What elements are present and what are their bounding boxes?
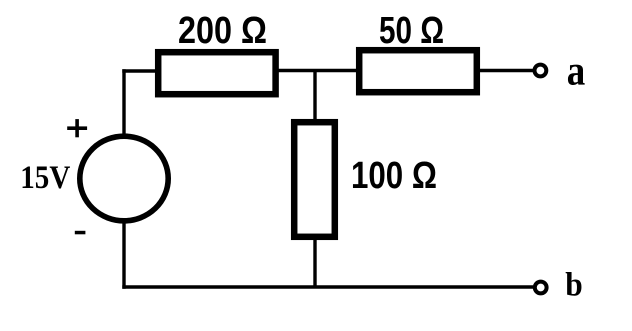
label V1 plus sign — [67, 126, 87, 130]
svg-text:50 Ω: 50 Ω — [379, 10, 444, 52]
wire: top-left horizontal to 200 ohm resistor — [122, 69, 156, 72]
terminal a circle — [535, 65, 547, 77]
voltage source V1 — [80, 136, 168, 221]
resistor R1 200 ohm — [158, 52, 275, 94]
wire: 100 ohm down to bottom rail — [313, 238, 316, 288]
label V1 minus sign — [75, 231, 86, 235]
terminal b circle — [535, 282, 547, 294]
wire: junction down to 100 ohm resistor — [313, 71, 316, 122]
resistor R3 100 ohm — [294, 122, 335, 237]
wire: bottom rail to terminal b — [122, 285, 533, 288]
wire: 200 ohm to 50 ohm middle segment — [277, 69, 357, 72]
resistor R2 50 ohm — [359, 50, 477, 92]
svg-text:100 Ω: 100 Ω — [351, 155, 437, 197]
svg-text:200 Ω: 200 Ω — [178, 10, 267, 52]
svg-text:a: a — [567, 49, 586, 95]
wire: source plus terminal up to node — [122, 69, 125, 135]
wire: 50 ohm to terminal a — [479, 69, 533, 72]
svg-text:b: b — [565, 267, 583, 304]
svg-text:15V: 15V — [20, 160, 70, 196]
wire: source minus terminal down to bottom rail — [122, 222, 125, 289]
